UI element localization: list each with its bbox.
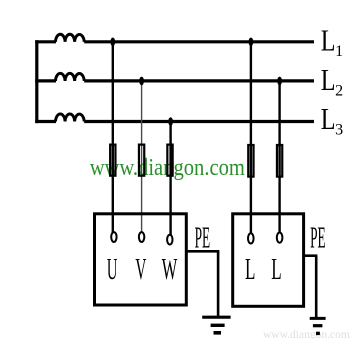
svg-text:V: V — [135, 252, 146, 286]
fuse FU2 — [139, 145, 144, 176]
wire: PE tap from right box — [304, 254, 318, 257]
wire: drop from L1 to right box terminal L — [250, 42, 252, 235]
svg-text:L: L — [321, 24, 336, 59]
fuse FU3 — [167, 145, 172, 176]
node: junction on L2 at right drop — [277, 77, 282, 86]
inductor choke on L3 — [56, 114, 85, 122]
svg-text:3: 3 — [335, 122, 343, 139]
fuse FU1 — [110, 145, 115, 176]
terminal U — [111, 232, 116, 242]
terminal V — [139, 232, 144, 242]
wire: line L3 right segment — [84, 120, 314, 123]
terminal W — [167, 235, 172, 245]
ground (right PE earth) — [310, 317, 326, 320]
svg-text:L: L — [271, 253, 281, 286]
node: junction on L1 at drop U — [110, 38, 115, 47]
svg-text:2: 2 — [335, 82, 343, 99]
terminal L (right box, second) — [277, 233, 283, 243]
svg-text:L: L — [321, 63, 336, 98]
svg-text:W: W — [162, 253, 178, 287]
wire: drop from L2 to terminal V (thin) — [141, 81, 143, 234]
svg-text:PE: PE — [310, 222, 326, 256]
inductor choke on L2 — [56, 73, 85, 81]
wire: line L1 left segment — [35, 40, 56, 43]
wire: drop from L3 to terminal W — [169, 122, 171, 237]
node: junction on L1 at right drop — [249, 38, 254, 47]
terminal L (right box, first) — [248, 233, 254, 243]
svg-text:1: 1 — [335, 43, 343, 60]
fuse FU5 — [277, 145, 282, 177]
node: junction on L3 at drop W — [168, 117, 173, 126]
wire: drop from L2 to right box terminal L — [278, 81, 280, 235]
box: left equipment (motor) enclosure — [95, 214, 187, 305]
wire: PE tap from left box — [186, 250, 220, 253]
box: right equipment enclosure — [233, 214, 304, 306]
wire: drop from L1 to terminal U — [112, 42, 114, 234]
svg-text:U: U — [107, 252, 118, 287]
svg-text:L: L — [245, 253, 255, 286]
inductor choke on L1 — [56, 34, 85, 42]
ground (left PE earth) — [202, 316, 230, 319]
node: junction on L2 at drop V — [139, 77, 144, 86]
wire: line L1 right segment — [84, 40, 314, 43]
svg-text:www.diangon.com: www.diangon.com — [263, 329, 350, 338]
wire: line L3 left segment — [35, 120, 56, 123]
fuse FU4 — [248, 145, 253, 177]
wire: line L2 left segment — [35, 79, 56, 82]
wire: line L2 right segment — [84, 79, 314, 82]
svg-text:L: L — [321, 102, 336, 137]
wire: left vertical bus — [35, 40, 38, 123]
